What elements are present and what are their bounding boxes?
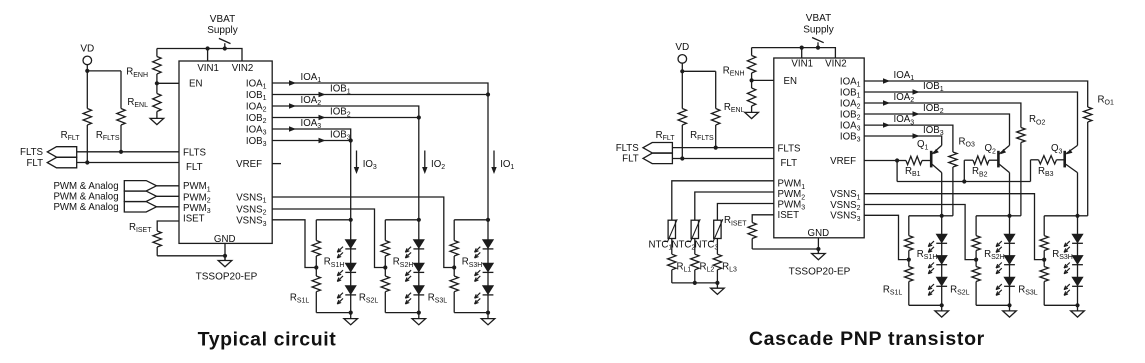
svg-text:IOA3: IOA3 bbox=[894, 114, 915, 126]
wire IOA2 to RO2 bbox=[864, 103, 1021, 128]
svg-text:ISET: ISET bbox=[183, 214, 205, 225]
op-amp U1 TSSOP20-EP box bbox=[179, 61, 272, 243]
svg-text:Cascade PNP transistor: Cascade PNP transistor bbox=[749, 328, 985, 350]
wire IOB2 to Q2 emitter bbox=[864, 114, 1009, 145]
junction NTC3 bottom bbox=[715, 281, 719, 285]
wire RO3 to string1 top bbox=[942, 215, 953, 217]
resistor RO1 bbox=[1084, 107, 1092, 216]
wire string1 top (right) bbox=[909, 215, 942, 217]
ground string1 bbox=[344, 313, 358, 325]
junction switch terminal bbox=[223, 46, 227, 50]
svg-text:FLTS: FLTS bbox=[616, 143, 640, 154]
LED D2a (right) bbox=[996, 234, 1015, 252]
resistor RS2L bbox=[381, 268, 389, 313]
LED D3b bbox=[475, 263, 494, 281]
wire IOB1 bbox=[272, 94, 488, 96]
wire string1 bottom bbox=[316, 312, 350, 314]
junction VREF node bbox=[895, 158, 899, 162]
svg-text:IOA1: IOA1 bbox=[301, 72, 322, 84]
svg-text:RS1L: RS1L bbox=[290, 293, 310, 305]
svg-text:IO2: IO2 bbox=[431, 159, 445, 171]
LED D2a bbox=[405, 240, 424, 258]
wire string2 top (right) bbox=[976, 215, 1009, 217]
wire string2 top bbox=[385, 219, 419, 221]
LED D1b bbox=[337, 263, 356, 281]
wire VREF bbox=[864, 160, 897, 162]
svg-text:IOB1: IOB1 bbox=[246, 90, 267, 102]
ground string3 bbox=[481, 313, 495, 325]
junction string2 bottom bbox=[417, 311, 421, 315]
svg-text:FLTS: FLTS bbox=[183, 148, 207, 159]
wire VSNS3 (right) bbox=[864, 215, 909, 259]
wire string1 bottom (right) bbox=[909, 304, 942, 306]
wire ISET (right) bbox=[752, 215, 774, 222]
svg-text:RL1: RL1 bbox=[677, 261, 692, 273]
transistor Q2 bbox=[998, 145, 1009, 172]
current arrow IO3 bbox=[354, 151, 359, 175]
svg-text:IOB2: IOB2 bbox=[330, 107, 351, 119]
wire VBAT supply rail bbox=[157, 49, 242, 62]
wire IOA1 bbox=[272, 83, 488, 95]
resistor RO2 bbox=[1017, 128, 1025, 216]
node string2 top bbox=[417, 218, 421, 222]
thermistor NTC3 bbox=[710, 219, 723, 241]
svg-text:Q3: Q3 bbox=[1051, 143, 1063, 155]
node string1 divider mid bbox=[314, 265, 318, 269]
svg-text:RL3: RL3 bbox=[722, 261, 737, 273]
wire IO1 vertical bbox=[487, 95, 489, 220]
resistor RS3L (right) bbox=[1040, 260, 1048, 306]
svg-text:IOB3: IOB3 bbox=[840, 131, 861, 143]
resistor RS1L bbox=[312, 268, 320, 313]
wire RO2 to string2 top bbox=[1010, 215, 1021, 217]
LED D1a bbox=[337, 240, 356, 258]
junction FLT-RFLT bbox=[85, 160, 89, 164]
resistor RS1H (right) bbox=[905, 216, 913, 260]
node string2 divider mid bbox=[383, 265, 387, 269]
svg-text:RISET: RISET bbox=[724, 215, 747, 227]
wire IOA3 to RO3 bbox=[864, 125, 953, 152]
resistor RL2 bbox=[691, 254, 699, 283]
wire IO3 vertical bbox=[350, 141, 352, 220]
wire VD stub (right) bbox=[681, 63, 683, 71]
wire FLTS (right) bbox=[672, 147, 773, 149]
junction bus-RB2 bbox=[962, 179, 966, 183]
connector flag PWM2 bbox=[124, 191, 156, 201]
wire GND pin bbox=[224, 243, 226, 260]
connector flag FLTS (right) bbox=[643, 143, 672, 153]
wire VBAT supply rail (right) bbox=[752, 48, 836, 58]
junction VIN1 on supply rail bbox=[206, 46, 210, 50]
resistor RB3 bbox=[1031, 156, 1065, 164]
svg-text:IOB3: IOB3 bbox=[330, 130, 351, 142]
connector flag FLT bbox=[47, 157, 76, 167]
wire LED chain 2 (right) bbox=[1009, 216, 1011, 305]
ground below RENL bbox=[150, 113, 164, 125]
LED D2c bbox=[405, 286, 424, 304]
svg-text:VBAT: VBAT bbox=[806, 13, 831, 24]
wire VSNS1 bbox=[272, 197, 454, 268]
junction GND-RISET (right) bbox=[816, 247, 820, 251]
svg-text:RS2L: RS2L bbox=[359, 293, 379, 305]
resistor RISET bbox=[153, 231, 161, 256]
svg-text:RENH: RENH bbox=[723, 65, 745, 77]
svg-text:PWM & Analog: PWM & Analog bbox=[53, 192, 118, 203]
arrow IOB1 (right) bbox=[913, 89, 920, 94]
svg-text:GND: GND bbox=[214, 234, 236, 245]
svg-text:RS2H: RS2H bbox=[984, 249, 1005, 261]
node string3 divider mid (right) bbox=[1042, 258, 1046, 262]
resistor RS1L (right) bbox=[905, 260, 913, 306]
svg-text:RS1H: RS1H bbox=[324, 257, 345, 269]
wire RB2 riser bbox=[963, 160, 965, 181]
svg-text:RB3: RB3 bbox=[1038, 166, 1054, 178]
arrow IOB3 bbox=[319, 138, 326, 143]
svg-text:IOB3: IOB3 bbox=[246, 136, 267, 148]
ground string1 (right) bbox=[935, 305, 949, 317]
LED D2c (right) bbox=[996, 277, 1015, 295]
wire IOA3 bbox=[272, 129, 351, 141]
wire PWM3 bbox=[157, 206, 180, 208]
wire VD stub bbox=[86, 65, 88, 71]
wire VREF bus bbox=[897, 181, 1030, 183]
connector flag FLTS bbox=[47, 147, 76, 157]
resistor RS1H bbox=[312, 220, 320, 268]
junction VD node bbox=[85, 69, 89, 73]
wire PWM2 to NTC2 bbox=[695, 192, 774, 220]
arrow IOB1 bbox=[319, 92, 326, 97]
svg-text:RISET: RISET bbox=[129, 222, 152, 234]
ground NTC network bbox=[711, 283, 725, 295]
wire PWM1 to NTC1 bbox=[672, 181, 774, 220]
wire LED chain 3 bbox=[487, 220, 489, 313]
wire RO1 to string3 top bbox=[1078, 215, 1088, 217]
wire IOA1 to RO1 bbox=[864, 81, 1087, 107]
svg-text:GND: GND bbox=[808, 228, 830, 239]
junction IOA1-IOB1 bbox=[486, 92, 490, 96]
wire string2 bottom bbox=[385, 312, 419, 314]
transistor Q1 bbox=[931, 145, 942, 172]
ground string2 (right) bbox=[1003, 305, 1017, 317]
svg-text:RO2: RO2 bbox=[1029, 114, 1045, 126]
svg-text:Supply: Supply bbox=[803, 25, 834, 36]
svg-text:RFLT: RFLT bbox=[656, 130, 676, 142]
resistor RB1 bbox=[897, 156, 931, 164]
wire IOB3 bbox=[272, 140, 351, 142]
LED D1c (right) bbox=[928, 277, 947, 295]
svg-text:VIN2: VIN2 bbox=[232, 63, 254, 74]
svg-text:IOB1: IOB1 bbox=[330, 84, 351, 96]
svg-text:IOA3: IOA3 bbox=[301, 118, 322, 130]
wire LED chain 1 bbox=[350, 220, 352, 313]
svg-text:PWM & Analog: PWM & Analog bbox=[53, 202, 118, 213]
svg-text:RS3H: RS3H bbox=[462, 257, 483, 269]
LED D3c (right) bbox=[1064, 277, 1083, 295]
svg-text:FLT: FLT bbox=[186, 162, 203, 173]
svg-text:VSNS3: VSNS3 bbox=[236, 216, 266, 228]
LED D3b (right) bbox=[1064, 256, 1083, 274]
svg-text:NTC3: NTC3 bbox=[695, 239, 719, 251]
wire VSNS2 bbox=[272, 209, 385, 268]
junction string2 bottom (right) bbox=[1007, 303, 1011, 307]
arrow IOB2 bbox=[319, 115, 326, 120]
junction IOA3-IOB3 bbox=[349, 138, 353, 142]
wire supply to RENH bbox=[156, 49, 158, 57]
wire VSNS2 (right) bbox=[864, 205, 976, 260]
op-amp U2 TSSOP20-EP box bbox=[774, 58, 864, 238]
svg-text:RFLTS: RFLTS bbox=[690, 130, 714, 142]
transistor Q3 bbox=[1065, 145, 1078, 172]
arrow IOA1 bbox=[289, 80, 296, 85]
resistor RFLT bbox=[83, 71, 91, 163]
supply VD circle (right) bbox=[678, 55, 687, 64]
svg-text:IOA2: IOA2 bbox=[301, 95, 322, 107]
svg-text:FLT: FLT bbox=[622, 154, 639, 165]
svg-text:RFLTS: RFLTS bbox=[96, 130, 120, 142]
resistor RFLTS (right) bbox=[712, 71, 720, 147]
wire FLTS bbox=[77, 151, 179, 153]
resistor RB2 bbox=[964, 156, 998, 164]
wire IOB3 to Q1 emitter bbox=[864, 136, 942, 145]
junction Q2 collector node bbox=[1007, 214, 1011, 218]
resistor RENL (right) bbox=[747, 80, 755, 108]
LED D1c bbox=[337, 286, 356, 304]
wire Q3 collector bbox=[1077, 173, 1079, 216]
svg-text:RS1H: RS1H bbox=[917, 249, 938, 261]
resistor RS2L (right) bbox=[972, 260, 980, 306]
svg-text:IOA1: IOA1 bbox=[246, 78, 267, 90]
wire NTC1 to RL1 bbox=[671, 239, 673, 255]
svg-text:VIN1: VIN1 bbox=[197, 63, 219, 74]
wire PWM2 bbox=[157, 195, 180, 197]
LED D3c bbox=[475, 286, 494, 304]
svg-text:IO3: IO3 bbox=[363, 159, 377, 171]
resistor RL1 bbox=[668, 254, 676, 283]
svg-text:ISET: ISET bbox=[778, 210, 800, 221]
svg-text:RS2L: RS2L bbox=[950, 285, 970, 297]
svg-text:Q1: Q1 bbox=[917, 139, 929, 151]
arrow IOA2 bbox=[289, 103, 296, 108]
current arrow IO1 bbox=[491, 151, 496, 175]
svg-text:VD: VD bbox=[675, 42, 689, 53]
wire string3 top bbox=[454, 219, 488, 221]
svg-text:VREF: VREF bbox=[236, 159, 262, 170]
wire VSNS3 bbox=[272, 220, 316, 268]
svg-text:IOB3: IOB3 bbox=[923, 125, 944, 137]
wire string3 top (right) bbox=[1044, 215, 1077, 217]
svg-text:FLT: FLT bbox=[781, 158, 798, 169]
wire IO2 vertical bbox=[418, 118, 420, 220]
svg-text:RENL: RENL bbox=[127, 97, 148, 109]
svg-text:PWM & Analog: PWM & Analog bbox=[53, 181, 118, 192]
ground string3 (right) bbox=[1071, 305, 1085, 317]
svg-text:VSNS3: VSNS3 bbox=[830, 211, 860, 223]
svg-text:FLT: FLT bbox=[26, 158, 43, 169]
arrow IOA3 bbox=[289, 126, 296, 131]
resistor RS3L bbox=[450, 268, 458, 313]
wire NTC common bottom bbox=[672, 282, 718, 284]
wire RISET to GND (right) bbox=[752, 248, 818, 250]
switch S1 (ignition) bbox=[219, 38, 231, 48]
arrow IOB2 (right) bbox=[913, 111, 920, 116]
junction FLTS-RFLTS (right) bbox=[714, 146, 718, 150]
svg-text:RS1L: RS1L bbox=[883, 285, 903, 297]
resistor RO3 bbox=[949, 152, 957, 216]
supply VD circle bbox=[83, 56, 92, 65]
resistor RENH (right) bbox=[747, 55, 755, 80]
svg-text:VBAT: VBAT bbox=[210, 14, 235, 25]
svg-text:RL2: RL2 bbox=[700, 261, 715, 273]
junction string1 bottom bbox=[349, 311, 353, 315]
wire ISET bbox=[157, 221, 179, 231]
wire rail to RENH (right) bbox=[751, 48, 753, 55]
svg-text:IOB1: IOB1 bbox=[923, 81, 944, 93]
resistor RS2H (right) bbox=[972, 216, 980, 260]
junction NTC2 bottom bbox=[693, 281, 697, 285]
resistor RS3H (right) bbox=[1040, 216, 1048, 260]
svg-text:TSSOP20-EP: TSSOP20-EP bbox=[789, 267, 851, 278]
LED D2b (right) bbox=[996, 256, 1015, 274]
arrow IOA3 (right) bbox=[883, 122, 890, 127]
junction string1 bottom (right) bbox=[940, 303, 944, 307]
svg-text:VD: VD bbox=[80, 44, 94, 55]
svg-text:RS2H: RS2H bbox=[393, 257, 414, 269]
wire PWM3 to NTC3 bbox=[717, 204, 773, 221]
wire LED chain 2 bbox=[418, 220, 420, 313]
junction IOA2-IOB2 bbox=[417, 115, 421, 119]
LED D3a (right) bbox=[1064, 234, 1083, 252]
arrow IOA1 (right) bbox=[883, 78, 890, 83]
svg-text:VIN2: VIN2 bbox=[825, 59, 847, 70]
resistor RFLT (right) bbox=[678, 71, 686, 158]
node EN divider bbox=[155, 81, 159, 85]
svg-text:VIN1: VIN1 bbox=[791, 59, 813, 70]
ground main bbox=[218, 258, 232, 267]
svg-text:RENL: RENL bbox=[724, 102, 745, 114]
svg-text:RS3L: RS3L bbox=[428, 293, 448, 305]
svg-text:Supply: Supply bbox=[207, 25, 238, 36]
connector flag PWM1 bbox=[124, 181, 156, 191]
wire string3 bottom bbox=[454, 312, 488, 314]
junction GND-RISET bbox=[223, 254, 227, 258]
svg-text:IOA3: IOA3 bbox=[246, 124, 267, 136]
resistor RENL bbox=[153, 83, 161, 112]
node string1 top bbox=[349, 218, 353, 222]
wire NTC2 to RL2 bbox=[694, 239, 696, 255]
resistor RS2H bbox=[381, 220, 389, 268]
wire VIN1 drop (right) bbox=[801, 48, 803, 58]
svg-text:EN: EN bbox=[784, 76, 797, 87]
ground string2 bbox=[412, 313, 426, 325]
wire IOA2 bbox=[272, 106, 419, 118]
resistor RENH bbox=[153, 56, 161, 83]
svg-text:RENH: RENH bbox=[126, 67, 148, 79]
wire IOB1 to Q3 emitter bbox=[864, 92, 1077, 145]
svg-text:VREF: VREF bbox=[830, 156, 856, 167]
svg-text:RS3L: RS3L bbox=[1018, 285, 1038, 297]
wire LED chain 3 (right) bbox=[1077, 216, 1079, 305]
wire string3 bottom (right) bbox=[1044, 304, 1077, 306]
resistor RFLTS bbox=[117, 71, 125, 152]
svg-text:TSSOP20-EP: TSSOP20-EP bbox=[196, 272, 258, 283]
wire FLT bbox=[77, 162, 179, 164]
wire string1 top bbox=[316, 219, 350, 221]
arrow IOA2 (right) bbox=[883, 100, 890, 105]
svg-text:Typical circuit: Typical circuit bbox=[198, 328, 337, 350]
thermistor NTC1 bbox=[664, 219, 677, 241]
svg-text:IOB2: IOB2 bbox=[923, 103, 944, 115]
svg-text:RS3H: RS3H bbox=[1052, 249, 1073, 261]
LED D2b bbox=[405, 263, 424, 281]
svg-text:RB2: RB2 bbox=[972, 166, 988, 178]
wire LED chain 1 (right) bbox=[941, 216, 943, 305]
svg-text:IOB2: IOB2 bbox=[246, 113, 267, 125]
resistor RL3 bbox=[713, 254, 721, 283]
svg-text:IOA2: IOA2 bbox=[894, 92, 915, 104]
node string2 divider mid (right) bbox=[974, 258, 978, 262]
wire VD branch (right) bbox=[682, 70, 715, 72]
svg-text:IOA2: IOA2 bbox=[246, 101, 267, 113]
svg-text:IOA1: IOA1 bbox=[894, 70, 915, 82]
LED D1b (right) bbox=[928, 256, 947, 274]
node EN divider (right) bbox=[750, 78, 754, 82]
junction string3 bottom (right) bbox=[1075, 303, 1079, 307]
svg-text:RO3: RO3 bbox=[959, 136, 975, 148]
switch S1 (right) bbox=[812, 38, 824, 48]
junction VIN1 on rail (right) bbox=[800, 46, 804, 50]
ground below RENL (right) bbox=[745, 108, 759, 119]
wire VD branch to RFLTS bbox=[87, 70, 121, 72]
connector flag FLT (right) bbox=[643, 153, 672, 163]
wire VREF bus riser bbox=[896, 161, 898, 182]
svg-text:RO1: RO1 bbox=[1098, 94, 1114, 106]
node string1 divider mid (right) bbox=[907, 258, 911, 262]
wire GND pin (right) bbox=[817, 238, 819, 254]
junction FLTS-RFLTS bbox=[119, 150, 123, 154]
svg-text:VSNS1: VSNS1 bbox=[236, 192, 266, 204]
node string3 top bbox=[486, 218, 490, 222]
svg-text:IO1: IO1 bbox=[500, 159, 514, 171]
wire EN to IC (right) bbox=[752, 79, 774, 81]
stub VREF bbox=[272, 163, 281, 165]
LED D1a (right) bbox=[928, 234, 947, 252]
wire VSNS1 (right) bbox=[864, 194, 1044, 260]
current arrow IO2 bbox=[422, 151, 427, 175]
wire NTC3 to RL3 bbox=[716, 239, 718, 255]
junction FLT-RFLT (right) bbox=[680, 156, 684, 160]
LED D3a bbox=[475, 240, 494, 258]
junction string3 bottom bbox=[486, 311, 490, 315]
wire VIN1 drop bbox=[207, 49, 209, 62]
wire Q1 collector bbox=[941, 173, 943, 216]
svg-text:FLTS: FLTS bbox=[20, 147, 44, 158]
wire RISET to GND bbox=[157, 255, 225, 257]
thermistor NTC2 bbox=[687, 219, 700, 241]
wire FLT (right) bbox=[672, 158, 773, 160]
node string3 divider mid bbox=[452, 265, 456, 269]
junction Q1 collector node bbox=[940, 214, 944, 218]
ground main (right) bbox=[812, 251, 826, 260]
svg-text:RB1: RB1 bbox=[905, 166, 921, 178]
wire bus to RB3 bbox=[1030, 160, 1032, 182]
wire PWM1 bbox=[157, 185, 180, 187]
wire Q2 collector bbox=[1009, 173, 1011, 216]
junction Q3 collector node bbox=[1075, 214, 1079, 218]
svg-text:RFLT: RFLT bbox=[61, 130, 81, 142]
resistor RISET (right) bbox=[748, 222, 756, 249]
wire IOB2 bbox=[272, 117, 419, 119]
svg-text:Q2: Q2 bbox=[985, 143, 997, 155]
